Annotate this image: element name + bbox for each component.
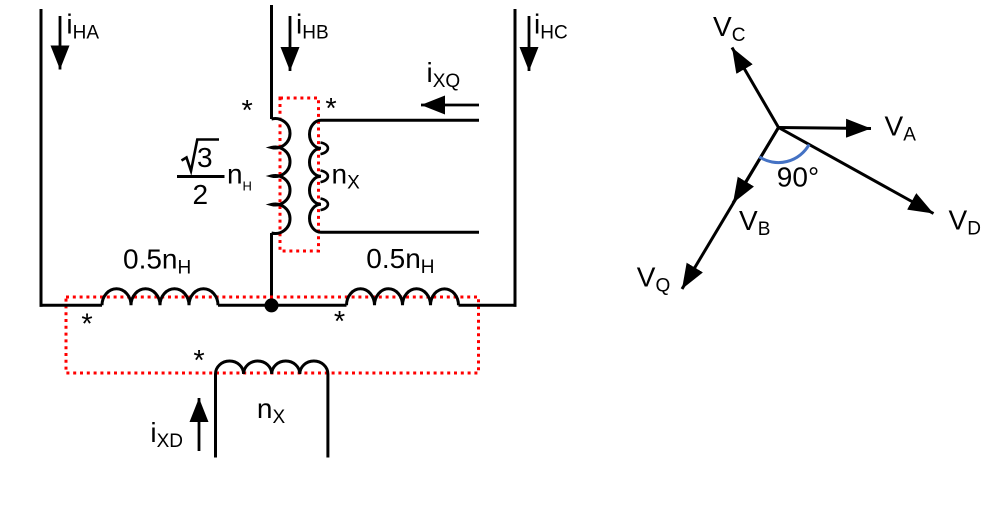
label sqrt(3)/2 nH (fraction): [177, 140, 252, 211]
wire: teaser secondary bottom lead: [321, 231, 479, 234]
arrow iHB current arrow: [289, 16, 292, 71]
svg-text:*: *: [242, 95, 253, 127]
highlight box: teaser winding pair (red dotted): [280, 98, 319, 251]
phasor VD: [779, 128, 934, 214]
svg-text:*: *: [334, 306, 345, 338]
winding: right half main primary 0.5nH: [347, 289, 459, 305]
angle arc 90 degrees (blue): [759, 145, 809, 163]
arrow iXQ current arrow: [421, 104, 479, 107]
svg-text:VA: VA: [885, 111, 917, 146]
arrow iHA current arrow: [59, 16, 62, 70]
fraction bar: [177, 175, 225, 178]
svg-text:VD: VD: [949, 205, 981, 240]
svg-text:iHB: iHB: [296, 9, 329, 44]
winding: left half main primary 0.5nH: [102, 289, 218, 305]
svg-text:0.5nH: 0.5nH: [366, 243, 434, 278]
highlight box: main winding pair (red dotted): [66, 297, 479, 373]
wire: phase A vertical leg: [40, 9, 43, 307]
svg-text:90°: 90°: [777, 162, 819, 193]
svg-text:H: H: [243, 178, 252, 193]
wire: phase B vertical leg: [270, 5, 273, 119]
svg-text:VC: VC: [713, 11, 745, 46]
wire: teaser primary lower leg to junction: [270, 233, 273, 305]
wire: teaser secondary top lead: [321, 119, 479, 122]
svg-text:nX: nX: [332, 158, 361, 193]
svg-text:iXQ: iXQ: [427, 57, 461, 92]
svg-text:VQ: VQ: [637, 261, 670, 296]
svg-text:2: 2: [193, 179, 209, 210]
phasor VB arrowhead on same line: [733, 128, 779, 204]
node: center-tap junction: [265, 298, 279, 312]
svg-text:VB: VB: [739, 205, 770, 240]
wire: bus center segment: [218, 304, 347, 307]
winding: main secondary nX: [216, 361, 328, 374]
svg-text:nX: nX: [257, 393, 286, 428]
svg-text:n: n: [227, 159, 243, 190]
svg-text:0.5nH: 0.5nH: [123, 243, 191, 278]
svg-text:*: *: [81, 309, 92, 341]
arrow iXD current arrow: [198, 398, 201, 451]
phasor VQ (collinear with VB): [682, 128, 779, 290]
wire: main secondary right lead: [326, 374, 329, 458]
phasor VC: [732, 48, 779, 128]
svg-text:*: *: [193, 345, 204, 377]
wire: bus right segment: [459, 304, 517, 307]
wire: main secondary left lead: [214, 374, 217, 458]
svg-text:iHC: iHC: [534, 9, 568, 44]
svg-text:3: 3: [197, 142, 213, 173]
winding: teaser primary sqrt(3)/2 nH: [272, 119, 291, 234]
radical sign: [182, 140, 220, 172]
phasor VA: [779, 128, 872, 129]
winding: teaser secondary nX: [310, 120, 322, 232]
svg-text:iHA: iHA: [66, 9, 99, 44]
wire: bus left segment: [40, 304, 103, 307]
arrow iHC current arrow: [528, 16, 531, 71]
svg-text:iXD: iXD: [150, 417, 183, 452]
wire: phase C vertical leg: [514, 9, 517, 307]
